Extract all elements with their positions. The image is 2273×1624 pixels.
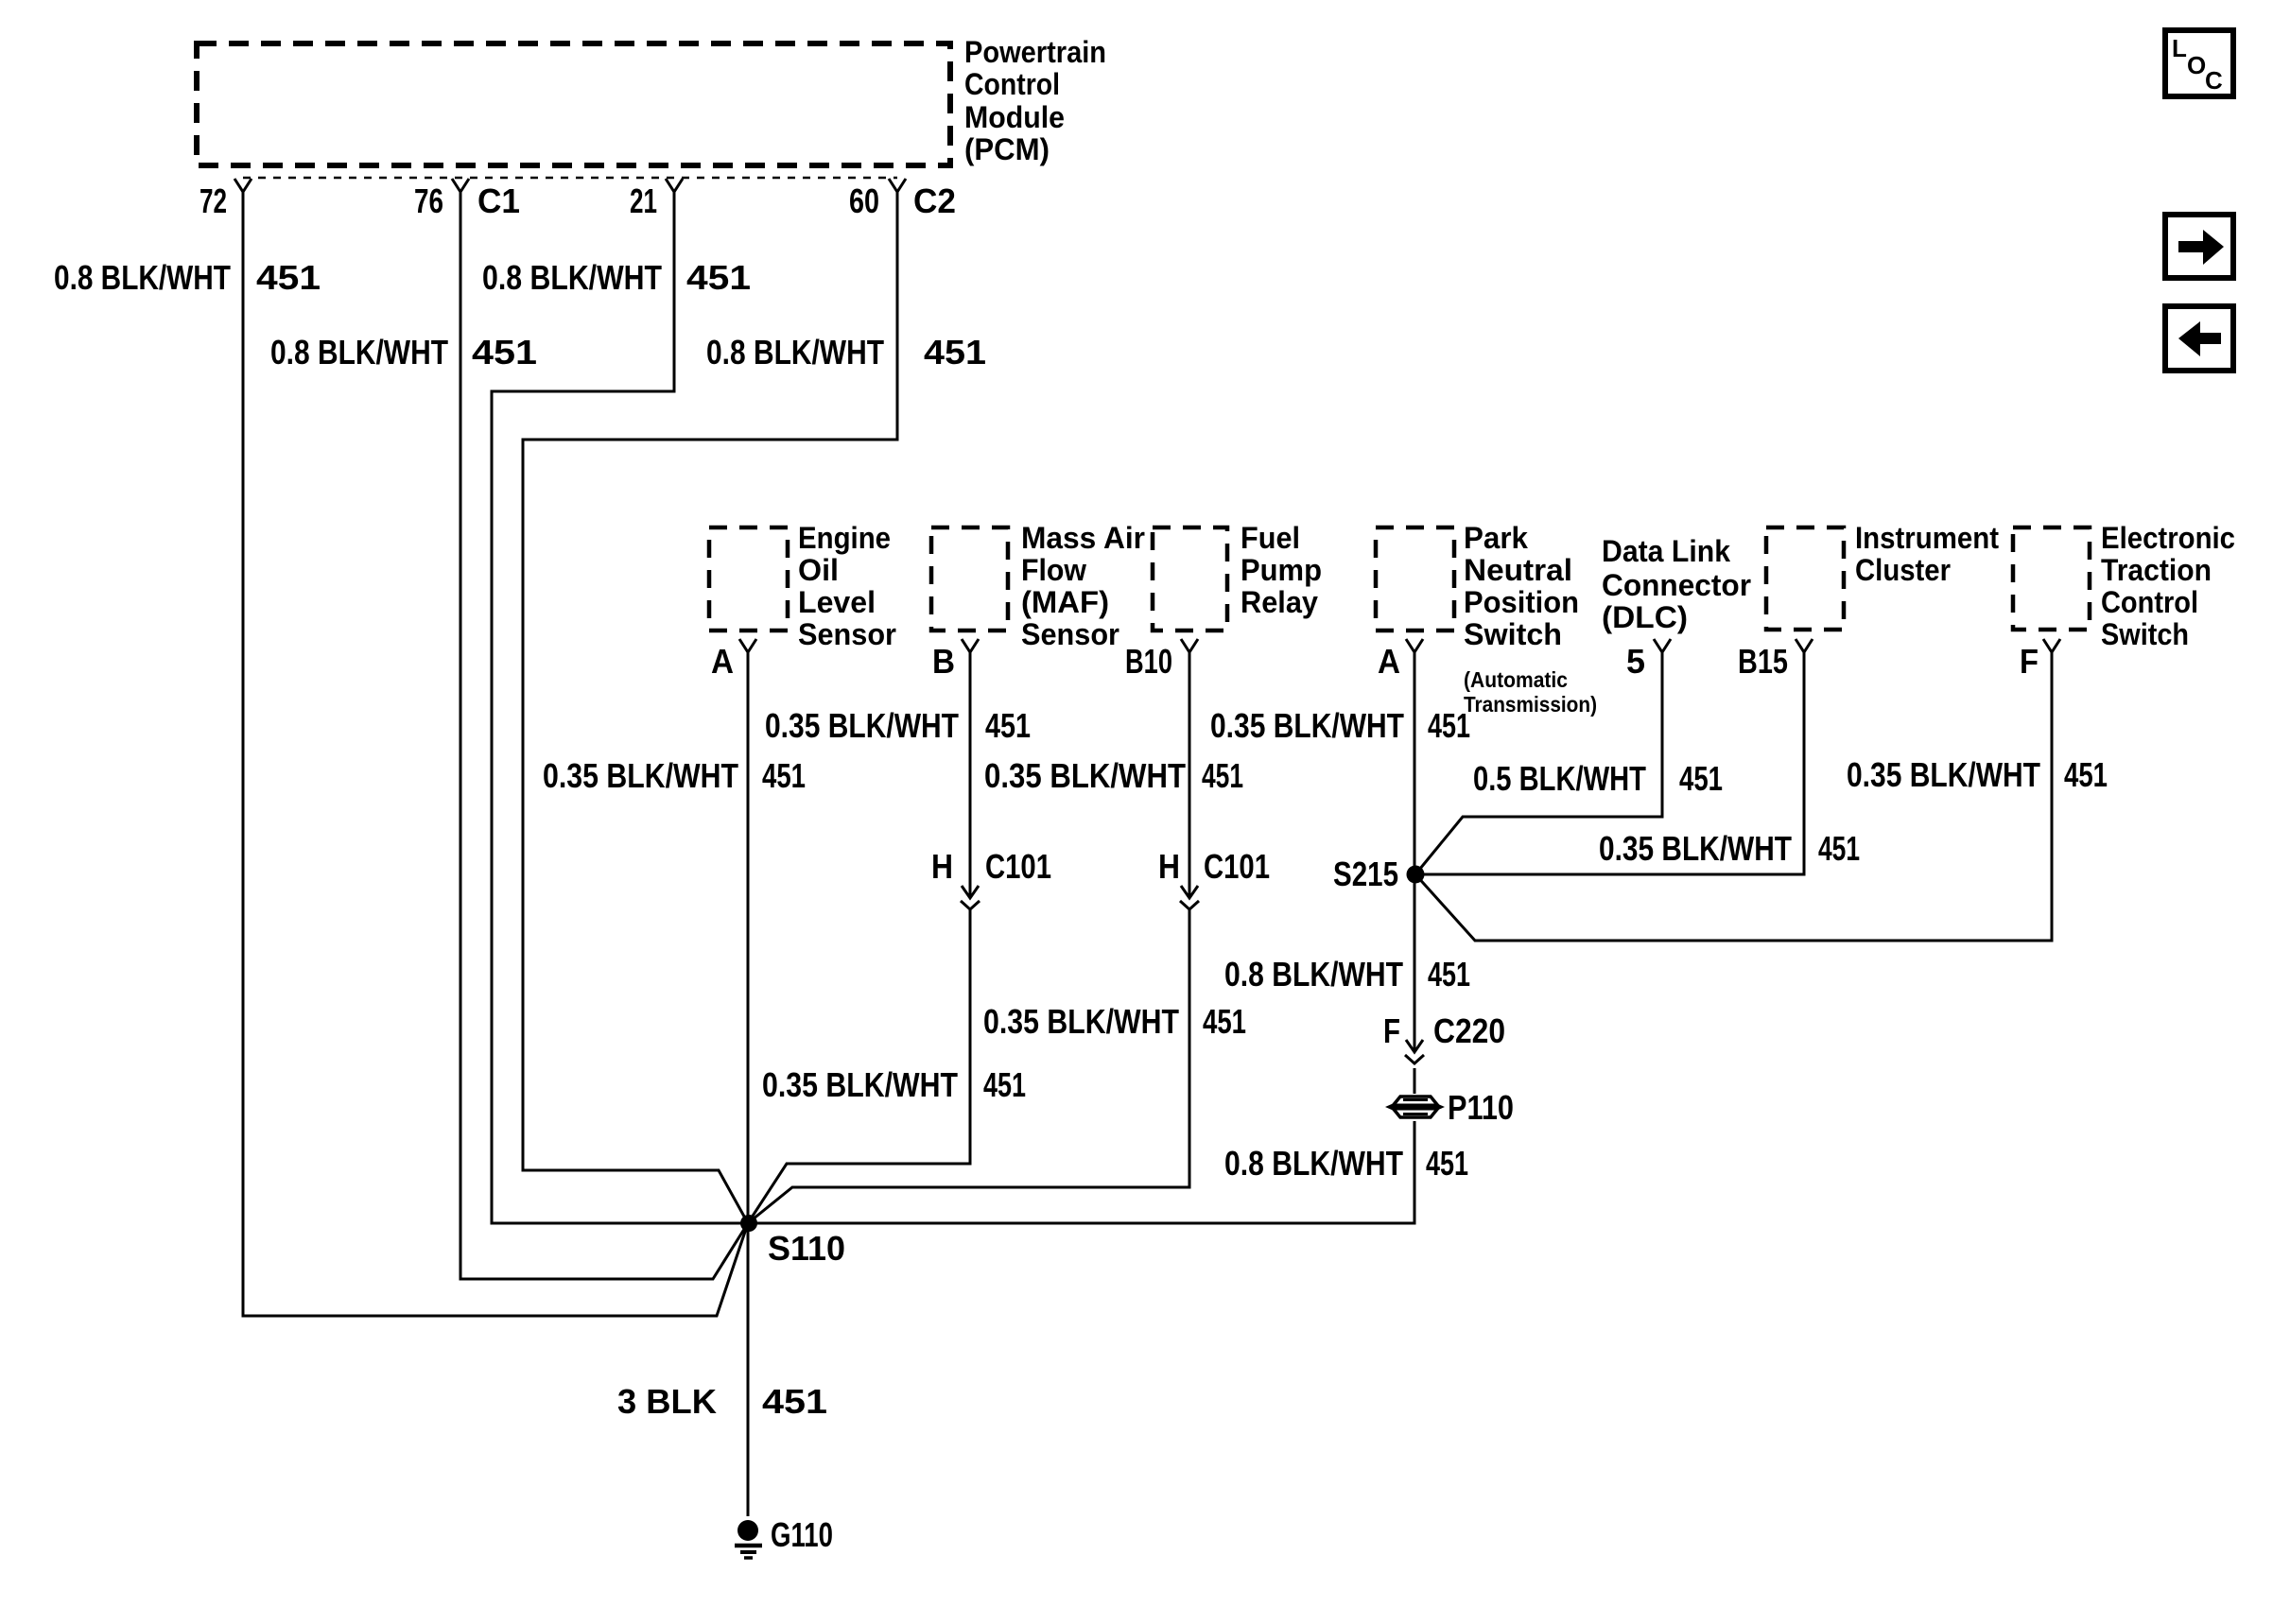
- svg-text:Mass Air: Mass Air: [1021, 521, 1145, 555]
- svg-text:0.35 BLK/WHT: 0.35 BLK/WHT: [1847, 755, 2040, 794]
- svg-text:21: 21: [630, 181, 657, 220]
- PCM pin 60 connector: [889, 179, 906, 192]
- Engine Oil Level Sensor pin A connector: [739, 639, 756, 652]
- ETC switch pin F connector: [2043, 639, 2060, 652]
- DLC pin 5 connector: [1654, 639, 1671, 652]
- svg-text:76: 76: [414, 181, 443, 220]
- svg-text:0.5 BLK/WHT: 0.5 BLK/WHT: [1473, 759, 1646, 798]
- svg-text:0.35 BLK/WHT: 0.35 BLK/WHT: [765, 706, 959, 745]
- inline connector C220: [1406, 1040, 1423, 1052]
- wire 451 from C101 (MAF) to S110: [748, 909, 970, 1223]
- wire 451 from C220 through P110 to S110: [1414, 1068, 1416, 1094]
- MAF pin B connector: [962, 639, 979, 652]
- svg-text:Powertrain: Powertrain: [964, 35, 1106, 69]
- svg-text:B10: B10: [1125, 642, 1172, 681]
- svg-text:Data Link: Data Link: [1602, 534, 1730, 568]
- PCM connector dashed line: [243, 177, 897, 180]
- svg-text:Sensor: Sensor: [1021, 617, 1119, 651]
- svg-text:C2: C2: [913, 181, 956, 220]
- svg-text:60: 60: [849, 181, 879, 220]
- svg-text:451: 451: [1203, 1002, 1246, 1041]
- svg-text:451: 451: [983, 1065, 1026, 1104]
- svg-text:Relay: Relay: [1241, 585, 1318, 619]
- svg-text:(MAF): (MAF): [1021, 585, 1109, 619]
- svg-text:A: A: [1378, 642, 1400, 681]
- svg-text:0.35 BLK/WHT: 0.35 BLK/WHT: [1210, 706, 1404, 745]
- wire 451 from fuel pump relay pin B10 to C101: [1189, 652, 1191, 896]
- svg-text:Electronic: Electronic: [2101, 521, 2235, 555]
- svg-text:0.35 BLK/WHT: 0.35 BLK/WHT: [984, 756, 1186, 795]
- svg-text:0.8 BLK/WHT: 0.8 BLK/WHT: [482, 258, 662, 297]
- wire 451 from MAF pin B to C101: [969, 652, 972, 896]
- inline connector C101 (MAF line): [962, 886, 979, 898]
- svg-text:C101: C101: [1204, 847, 1270, 886]
- svg-text:0.8 BLK/WHT: 0.8 BLK/WHT: [706, 333, 884, 371]
- wire 451 from instrument cluster pin B15 to S215: [1423, 652, 1804, 874]
- svg-text:Neutral: Neutral: [1464, 553, 1572, 587]
- PCM pin 21 connector: [666, 179, 683, 192]
- Instrument Cluster pin B15 connector: [1796, 639, 1813, 652]
- svg-text:S215: S215: [1333, 855, 1398, 893]
- svg-text:Sensor: Sensor: [798, 617, 896, 651]
- svg-text:5: 5: [1626, 642, 1645, 681]
- svg-text:H: H: [1158, 847, 1180, 886]
- svg-text:P110: P110: [1448, 1088, 1514, 1127]
- wire 451 from PCM pin 72 to S110: [243, 192, 748, 1316]
- svg-text:451: 451: [1428, 706, 1470, 745]
- svg-text:0.8 BLK/WHT: 0.8 BLK/WHT: [54, 258, 231, 297]
- svg-text:Cluster: Cluster: [1855, 553, 1951, 587]
- svg-text:0.35 BLK/WHT: 0.35 BLK/WHT: [1599, 829, 1792, 868]
- svg-text:O: O: [2187, 51, 2206, 79]
- svg-text:Flow: Flow: [1021, 553, 1086, 587]
- legend right-arrow box: [2165, 215, 2233, 278]
- svg-text:Module: Module: [964, 100, 1065, 134]
- svg-text:Switch: Switch: [1464, 617, 1562, 651]
- svg-text:0.8 BLK/WHT: 0.8 BLK/WHT: [1224, 1144, 1403, 1183]
- wire 451 from DLC pin 5 to S215: [1415, 652, 1662, 874]
- svg-text:C: C: [2205, 66, 2223, 95]
- Fuel Pump Relay dashed box: [1153, 527, 1227, 631]
- svg-text:3 BLK: 3 BLK: [617, 1382, 717, 1421]
- svg-text:C220: C220: [1433, 1011, 1505, 1050]
- Instrument Cluster dashed box: [1766, 527, 1844, 630]
- svg-text:451: 451: [924, 333, 986, 371]
- PCM (Powertrain Control Module) dashed box: [197, 43, 950, 165]
- legend left arrow: [2178, 321, 2221, 356]
- svg-text:451: 451: [985, 706, 1031, 745]
- PNP switch pin A connector: [1406, 639, 1423, 652]
- svg-text:451: 451: [1426, 1144, 1468, 1183]
- PCM pin 76 connector: [452, 179, 469, 192]
- svg-text:S110: S110: [768, 1229, 845, 1268]
- svg-text:0.8 BLK/WHT: 0.8 BLK/WHT: [270, 333, 448, 371]
- Fuel Pump Relay pin B10 connector: [1181, 639, 1198, 652]
- splice S110: [740, 1215, 757, 1232]
- svg-text:Traction: Traction: [2101, 553, 2212, 587]
- svg-text:0.35 BLK/WHT: 0.35 BLK/WHT: [983, 1002, 1179, 1041]
- svg-text:G110: G110: [771, 1515, 833, 1554]
- svg-text:Oil: Oil: [798, 553, 839, 587]
- svg-text:0.35 BLK/WHT: 0.35 BLK/WHT: [762, 1065, 958, 1104]
- svg-text:451: 451: [1679, 759, 1723, 798]
- svg-text:L: L: [2172, 34, 2187, 62]
- svg-text:Switch: Switch: [2101, 617, 2189, 651]
- svg-text:(Automatic: (Automatic: [1464, 667, 1568, 692]
- grommet P110: [1385, 1097, 1445, 1117]
- Engine Oil Level Sensor dashed box: [709, 527, 788, 631]
- svg-text:451: 451: [1818, 829, 1860, 868]
- wire 451 from ETC switch pin F to S215: [1415, 652, 2052, 941]
- svg-text:0.8 BLK/WHT: 0.8 BLK/WHT: [1224, 955, 1403, 993]
- legend left-arrow box: [2165, 306, 2233, 371]
- svg-text:Control: Control: [964, 67, 1060, 101]
- svg-text:451: 451: [256, 258, 321, 297]
- svg-text:451: 451: [1202, 756, 1243, 795]
- svg-text:(PCM): (PCM): [964, 132, 1050, 166]
- svg-text:451: 451: [1428, 955, 1470, 993]
- svg-text:(DLC): (DLC): [1602, 600, 1688, 634]
- svg-text:Fuel: Fuel: [1241, 521, 1300, 555]
- PCM pin 72 connector: [234, 179, 252, 192]
- svg-text:451: 451: [762, 1382, 827, 1421]
- svg-text:Transmission): Transmission): [1464, 692, 1597, 717]
- svg-text:0.35 BLK/WHT: 0.35 BLK/WHT: [543, 756, 738, 795]
- svg-text:B15: B15: [1738, 642, 1788, 681]
- svg-text:Position: Position: [1464, 585, 1579, 619]
- svg-text:F: F: [1383, 1011, 1400, 1050]
- Park Neutral Position Switch dashed box: [1376, 527, 1454, 631]
- Electronic Traction Control Switch dashed box: [2013, 527, 2090, 630]
- wire 451 from oil level sensor pin A through S110 to G110: [747, 652, 750, 1516]
- splice S215: [1407, 866, 1425, 884]
- svg-text:451: 451: [686, 258, 751, 297]
- svg-text:Connector: Connector: [1602, 568, 1751, 602]
- svg-text:72: 72: [200, 181, 227, 220]
- svg-text:C1: C1: [477, 181, 520, 220]
- svg-text:Instrument: Instrument: [1855, 521, 1999, 555]
- wire 451 from PCM pin 76 to S110: [460, 192, 748, 1279]
- svg-text:Park: Park: [1464, 521, 1528, 555]
- svg-text:A: A: [711, 642, 734, 681]
- svg-text:Level: Level: [798, 585, 876, 619]
- svg-text:B: B: [932, 642, 955, 681]
- svg-text:H: H: [931, 847, 953, 886]
- wire 451 from PNP switch pin A to C220: [1414, 652, 1416, 1051]
- svg-text:451: 451: [2064, 755, 2108, 794]
- legend LOC box: [2165, 30, 2233, 96]
- Mass Air Flow sensor dashed box: [931, 527, 1008, 631]
- ground G110: [737, 1520, 758, 1541]
- wire 451 from C101 (fuel pump relay) to S110: [748, 909, 1189, 1223]
- svg-text:Control: Control: [2101, 585, 2198, 619]
- svg-text:Pump: Pump: [1241, 553, 1322, 587]
- svg-text:C101: C101: [985, 847, 1051, 886]
- legend right arrow: [2178, 230, 2224, 265]
- svg-text:451: 451: [762, 756, 806, 795]
- svg-text:451: 451: [472, 333, 537, 371]
- svg-text:F: F: [2020, 642, 2039, 681]
- wire 451 from PCM pin 21 to S110: [492, 192, 742, 1223]
- inline connector C101 (fuel pump relay line): [1181, 886, 1198, 898]
- wire 451 from PCM pin 60 to S110: [523, 192, 897, 1223]
- svg-text:Engine: Engine: [798, 521, 891, 555]
